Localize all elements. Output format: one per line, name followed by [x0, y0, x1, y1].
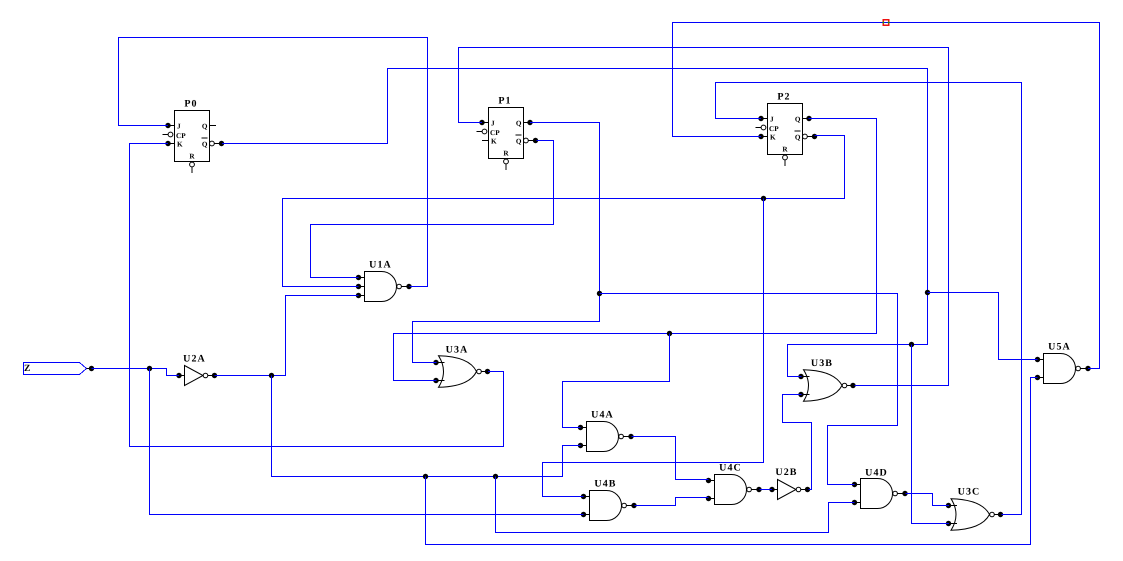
wire P2 Qbar trunk to U1A middle input [283, 136, 845, 287]
NAND gate U4D [852, 468, 908, 509]
NOR gate U3B [798, 358, 855, 401]
svg-text:K: K [177, 141, 183, 149]
wire U2A output to U1A bottom input [215, 296, 359, 379]
wire U2B output to U3B bottom input [783, 395, 812, 490]
wire U3B output to P1 J [459, 48, 949, 386]
node: Z pin dot [89, 366, 94, 371]
wire branch to U4D bottom input [496, 477, 855, 533]
NOR gate U3A [433, 345, 490, 388]
svg-text:U5A: U5A [1048, 342, 1071, 353]
svg-text:K: K [770, 134, 776, 142]
wire U4B output to U4C bottom input [635, 498, 709, 506]
NOR gate U3C [946, 487, 1003, 531]
svg-text:Q: Q [795, 134, 801, 142]
wire U4C output to U2B input [760, 489, 773, 491]
svg-text:Z: Z [24, 364, 30, 374]
NAND gate U4A [578, 410, 634, 452]
NAND gate U1A [356, 260, 412, 302]
wire U5A output to P2 K (topmost run) [673, 23, 1100, 369]
NAND gate U4C [706, 463, 762, 505]
svg-text:U3C: U3C [958, 487, 981, 498]
wire U4A output to U4C top input [632, 437, 709, 480]
svg-text:J: J [770, 116, 774, 124]
wire U4D output to U3C top input [906, 494, 950, 506]
inverter U2A [176, 354, 217, 386]
wire P1 Q to U3A top input [413, 123, 603, 363]
wire branch Z to U4B bottom input [150, 369, 584, 515]
wire P1 Qbar to U1A top input [311, 141, 554, 278]
svg-text:R: R [503, 150, 509, 158]
svg-text:Q: Q [516, 120, 522, 128]
wire branch to U5A top input [928, 293, 1038, 360]
NAND gate U4B [581, 479, 637, 521]
svg-text:U2A: U2A [183, 354, 206, 365]
selection marker (red square) on U5A-P2K wire [883, 20, 890, 25]
svg-text:U4C: U4C [719, 463, 742, 474]
svg-text:U3A: U3A [446, 345, 469, 356]
flip-flop P1 [477, 96, 539, 171]
NAND gate U5A [1035, 342, 1091, 384]
wire branch P2 Q to U4A top input [563, 334, 670, 428]
svg-text:P0: P0 [184, 99, 197, 110]
wire branch to U3C bottom input [912, 345, 950, 524]
svg-text:J: J [177, 123, 181, 131]
wire P2 Q to U3A bottom input [394, 119, 877, 381]
svg-text:K: K [491, 138, 497, 146]
wire U3A output to P0 K [130, 144, 504, 447]
svg-text:R: R [782, 146, 788, 154]
svg-text:P2: P2 [777, 92, 790, 103]
svg-text:Q: Q [516, 138, 522, 146]
svg-text:U2B: U2B [775, 467, 797, 478]
flip-flop P2 [756, 92, 818, 167]
wire branch U2A output down to U4A bottom input [272, 376, 581, 480]
wire Z to U2A input [92, 366, 180, 376]
svg-text:CP: CP [176, 132, 186, 140]
svg-text:J: J [491, 120, 495, 128]
svg-text:P1: P1 [498, 96, 511, 107]
svg-text:CP: CP [769, 125, 779, 133]
wire U1A output to P0 J (top-left loop) [119, 38, 428, 287]
svg-text:U4B: U4B [594, 479, 616, 490]
svg-text:CP: CP [490, 129, 500, 137]
wire U3C output to P2 J [716, 83, 1022, 515]
wire branch along bottom to U5A bottom input [426, 378, 1038, 545]
wire branch P1 Q to U4D top input [600, 294, 898, 485]
svg-text:R: R [189, 153, 195, 161]
wire P0 Qbar to U3B/U5A region trunk [222, 69, 930, 377]
inverter U2B [769, 467, 810, 500]
wire branch P2 Qbar to U4B top input [543, 199, 764, 497]
svg-text:U1A: U1A [369, 260, 392, 271]
svg-text:Q: Q [202, 141, 208, 149]
svg-text:U4D: U4D [865, 468, 888, 479]
flip-flop P0 [163, 99, 225, 174]
svg-text:U4A: U4A [591, 410, 614, 421]
svg-text:Q: Q [202, 123, 208, 131]
input port Z [24, 363, 92, 375]
svg-text:Q: Q [795, 116, 801, 124]
svg-text:U3B: U3B [811, 358, 833, 369]
